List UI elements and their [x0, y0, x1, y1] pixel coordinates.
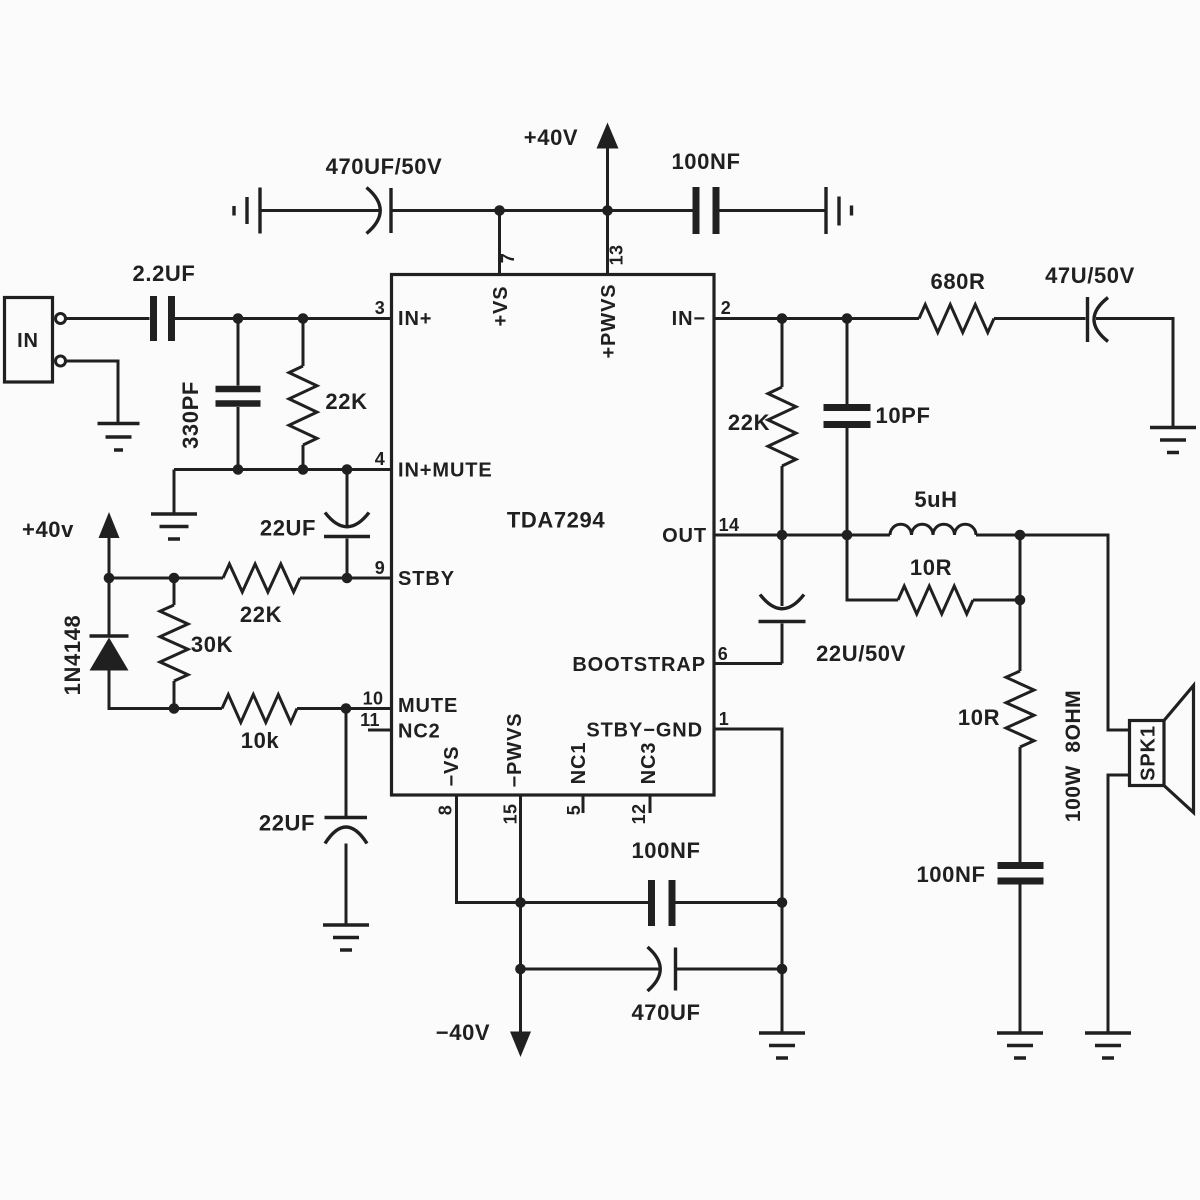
svg-text:47U/50V: 47U/50V [1045, 263, 1135, 288]
node junction +40v / pin9 [104, 573, 115, 584]
svg-text:6: 6 [718, 644, 728, 664]
svg-text:NC2: NC2 [398, 721, 441, 743]
svg-text:13: 13 [607, 245, 627, 266]
node junction 22UF bottom / pin9 [342, 573, 353, 584]
capacitor C9 47U/50V [1086, 297, 1089, 342]
connector J1 IN jack [5, 298, 53, 383]
pin 12 stub [649, 795, 652, 813]
wire pin 1 path [714, 729, 782, 1032]
capacitor C5 22UF (upper) [346, 470, 349, 527]
node junction 22UF lower top [341, 703, 352, 714]
svg-text:1N4148: 1N4148 [60, 615, 85, 696]
ground (pin4 left) [151, 514, 197, 539]
svg-text:470UF: 470UF [631, 1000, 700, 1025]
wire 100NF row right [676, 901, 783, 904]
svg-text:2: 2 [721, 298, 731, 318]
svg-text:+VS: +VS [490, 285, 512, 326]
ground (top-left, sideways) [234, 188, 260, 234]
svg-text:100NF: 100NF [631, 838, 700, 863]
svg-text:SPK1: SPK1 [1138, 725, 1160, 781]
wire pin 9 line right [300, 577, 392, 580]
wire jack lower to ground [66, 361, 118, 423]
svg-text:OUT: OUT [662, 525, 707, 547]
svg-text:10: 10 [363, 689, 384, 709]
ground (speaker) [1085, 1033, 1131, 1058]
wire pin4 left drop [173, 470, 176, 514]
capacitor C12 100NF (zobel) [998, 862, 1044, 869]
ground (22UF lower) [323, 925, 369, 950]
svg-text:15: 15 [501, 804, 521, 825]
svg-text:IN+MUTE: IN+MUTE [398, 460, 493, 482]
wire pin 9 line left [109, 577, 223, 580]
svg-text:22UF: 22UF [260, 516, 316, 541]
wire pin 7 lead [498, 211, 501, 277]
svg-text:11: 11 [360, 710, 380, 730]
wire pin 4 line [174, 468, 392, 471]
wire pin 2 line right [994, 317, 1086, 320]
svg-text:22UF: 22UF [259, 811, 315, 836]
svg-text:330PF: 330PF [178, 381, 203, 449]
node junction 330PF top [233, 313, 244, 324]
node junction 22K top [298, 313, 309, 324]
node junction 10PF top [842, 313, 853, 324]
svg-text:STBY: STBY [398, 568, 455, 590]
svg-text:5: 5 [564, 805, 584, 815]
wire bootstrap to pin 6 [714, 662, 782, 665]
svg-text:680R: 680R [931, 269, 986, 294]
svg-text:10R: 10R [910, 555, 952, 580]
svg-text:100NF: 100NF [671, 149, 740, 174]
wire top rail left segment [260, 209, 379, 212]
node junction 22K bottom [298, 464, 309, 475]
wire 470UF row left [521, 968, 659, 971]
resistor R5 680R [919, 305, 994, 333]
resistor R6 22K (feedback) [781, 319, 784, 388]
capacitor C11 22U/50V (bootstrap) [781, 535, 784, 606]
node junction 10PF bottom / 10R [842, 530, 853, 541]
svg-text:TDA7294: TDA7294 [507, 508, 606, 533]
node junction bootstrap cap top [777, 530, 788, 541]
svg-text:10PF: 10PF [876, 403, 931, 428]
svg-text:NC1: NC1 [568, 742, 590, 785]
wire pin 10 line right [297, 707, 392, 710]
capacitor C8 470UF (bottom) [648, 947, 661, 991]
svg-text:100W 8OHM: 100W 8OHM [1062, 690, 1085, 822]
capacitor C6 22UF (lower) [345, 709, 348, 817]
svg-text:1: 1 [719, 709, 729, 729]
wire top rail middle segment [391, 209, 693, 212]
svg-text:8: 8 [436, 805, 456, 815]
resistor R8 10R (zobel) [1019, 535, 1022, 671]
svg-text:22U/50V: 22U/50V [816, 641, 906, 666]
wire pin 15 line [519, 795, 522, 1032]
node junction pin1/100NF [777, 897, 788, 908]
wire 100NF row left [521, 901, 649, 904]
resistor R2 22K (STBY) [223, 564, 300, 592]
svg-text:+40v: +40v [22, 517, 74, 542]
wire pin 14 line left [714, 534, 890, 537]
svg-text:5uH: 5uH [914, 487, 957, 512]
svg-text:2.2UF: 2.2UF [133, 261, 196, 286]
svg-text:STBY−GND: STBY−GND [586, 720, 703, 742]
ground (top-right, sideways) [826, 187, 852, 234]
svg-text:−PWVS: −PWVS [504, 712, 526, 787]
ground (zobel) [997, 1033, 1043, 1058]
node junction pin1/470UF [777, 964, 788, 975]
wire 47U to ground [1096, 319, 1173, 428]
svg-text:3: 3 [375, 298, 385, 318]
node junction 22K right top [777, 313, 788, 324]
wire pin 13 lead [606, 211, 609, 277]
resistor R4 10k [222, 695, 297, 723]
wire C3 to pin 3 [175, 317, 392, 320]
wire pin 10 line left [109, 671, 222, 709]
wire pin 14 line right to speaker [976, 535, 1130, 730]
node junction 470UF left [515, 964, 526, 975]
capacitor C1 470UF/50V [367, 188, 381, 234]
svg-text:+PWVS: +PWVS [598, 283, 620, 358]
wire top rail right segment [720, 209, 827, 212]
svg-text:10k: 10k [241, 728, 280, 753]
node junction 22UF top [342, 464, 353, 475]
svg-text:MUTE: MUTE [398, 695, 458, 717]
node junction 30K bottom [169, 703, 180, 714]
ground (IN jack) [98, 424, 140, 451]
node junction pin7 rail [494, 205, 505, 216]
svg-text:−VS: −VS [441, 745, 463, 786]
capacitor C10 10PF [846, 319, 849, 405]
svg-text:100NF: 100NF [916, 862, 985, 887]
op-amp U1 TDA7294 IC body [392, 275, 715, 796]
svg-text:470UF/50V: 470UF/50V [326, 154, 443, 179]
capacitor C7 100NF (bottom) [648, 880, 655, 926]
svg-text:IN: IN [17, 330, 39, 352]
power +40V arrow [606, 148, 609, 211]
svg-text:12: 12 [629, 804, 649, 825]
svg-text:14: 14 [719, 515, 740, 535]
pin 5 stub [582, 795, 585, 813]
svg-text:10R: 10R [958, 705, 1000, 730]
diode D1 1N4148 [108, 578, 111, 635]
svg-text:−40V: −40V [436, 1020, 490, 1045]
svg-text:30K: 30K [191, 632, 233, 657]
node junction 10R/10R [1015, 595, 1026, 606]
ground (47U/50V) [1150, 428, 1196, 453]
power -40V arrow [510, 1032, 531, 1058]
svg-text:22K: 22K [728, 410, 770, 435]
node junction pin13 rail [602, 205, 613, 216]
capacitor C3 2.2UF [150, 296, 157, 341]
resistor R1 22K (input) [302, 319, 305, 367]
resistor R3 30K [173, 578, 176, 605]
node junction 30K top [169, 573, 180, 584]
svg-text:IN−: IN− [672, 308, 706, 330]
svg-text:BOOTSTRAP: BOOTSTRAP [572, 654, 706, 676]
node junction 330PF bottom [233, 464, 244, 475]
svg-text:22K: 22K [325, 389, 367, 414]
pin 11 stub [368, 729, 392, 732]
svg-text:4: 4 [375, 449, 385, 469]
wire pin 8 path [457, 795, 520, 903]
svg-text:IN+: IN+ [398, 308, 432, 330]
ground (pin1 column) [759, 1033, 805, 1058]
resistor R7 10R (parallel) [847, 535, 898, 600]
wire jack to C3 [66, 317, 150, 320]
node junction zobel top [1015, 530, 1026, 541]
svg-text:22K: 22K [240, 602, 282, 627]
svg-text:7: 7 [498, 253, 518, 263]
speaker SPK1 [1130, 721, 1165, 786]
svg-text:9: 9 [375, 558, 385, 578]
inductor L1 5uH [890, 524, 976, 535]
node junction pin8/pin15 [515, 897, 526, 908]
capacitor C4 330PF [237, 319, 240, 386]
wire pin 2 line left [714, 317, 919, 320]
wire speaker return [1108, 775, 1130, 1032]
svg-text:NC3: NC3 [638, 742, 660, 785]
capacitor C2 100NF (top) [693, 187, 700, 234]
svg-text:+40V: +40V [524, 125, 578, 150]
